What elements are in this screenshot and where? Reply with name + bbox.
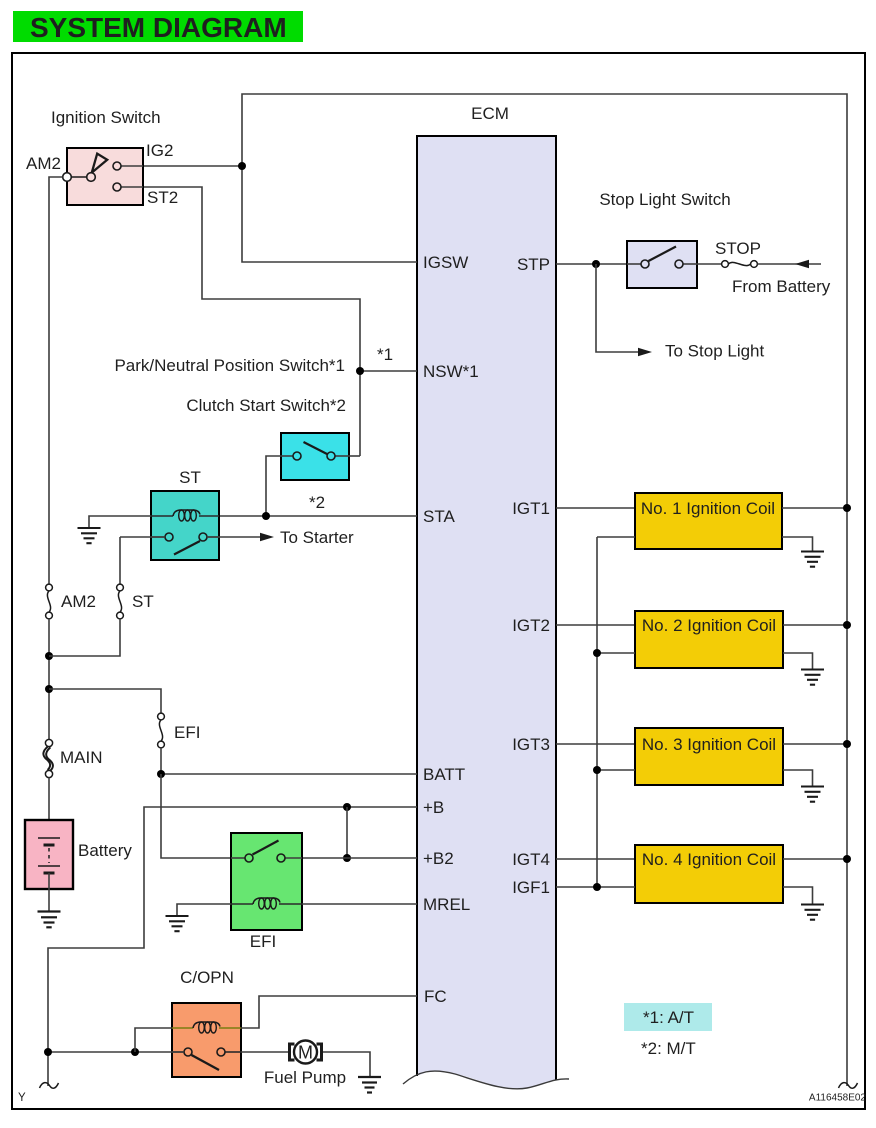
svg-text:C/OPN: C/OPN: [180, 968, 234, 987]
ground coil 3: [801, 787, 824, 802]
wire IGT2 from ECM to coil 2: [556, 624, 635, 626]
clutch start switch SW2 box: [281, 433, 349, 480]
wire clutch switch right to NSW vertical: [349, 455, 360, 457]
wire coil 3 feed to right rail: [783, 743, 847, 745]
wire NSW junction to NSW*1 pin: [360, 370, 417, 372]
wire IGT4 from ECM to coil 4: [556, 858, 635, 860]
node fuel rail left junction: [44, 1048, 52, 1056]
svg-text:*1: A/T: *1: A/T: [643, 1008, 694, 1027]
wire EFI fuse branch: [49, 689, 161, 713]
fuse EFI: [158, 713, 165, 748]
fuse MAIN (fusible link): [43, 739, 53, 777]
svg-text:Fuel Pump: Fuel Pump: [264, 1068, 346, 1087]
svg-text:+B: +B: [423, 798, 444, 817]
svg-text:Y: Y: [18, 1092, 26, 1104]
wire ST fuse branch from ST relay contact: [119, 537, 121, 584]
svg-text:Battery: Battery: [78, 841, 132, 860]
wire IGF1 from ECM to coil 4: [556, 886, 635, 888]
svg-text:EFI: EFI: [174, 723, 200, 742]
wire coil 3 to ground: [783, 770, 813, 787]
title SYSTEM DIAGRAM: [13, 11, 303, 43]
wire break tilde bottom-right rail: [839, 1083, 858, 1089]
wire AM2 fuse to junctions: [48, 619, 50, 739]
svg-text:IGT2: IGT2: [512, 616, 550, 635]
wire battery to ground: [48, 873, 50, 911]
relay ST box: [151, 491, 219, 560]
wire From Battery with left arrow: [757, 260, 821, 268]
svg-text:IGT1: IGT1: [512, 499, 550, 518]
svg-text:To Starter: To Starter: [280, 528, 354, 547]
node BATT junction: [157, 770, 165, 778]
svg-text:No. 4 Ignition Coil: No. 4 Ignition Coil: [642, 850, 776, 869]
wire coil feed up into C/OPN: [135, 1028, 172, 1052]
wire ST relay coil to ground: [89, 516, 151, 528]
svg-text:IGT3: IGT3: [512, 735, 550, 754]
note highlight *1: A/T: [624, 1003, 712, 1031]
ignition coil 2 box: [635, 611, 783, 668]
svg-text:*2: M/T: *2: M/T: [641, 1039, 696, 1058]
node EFI branch junction: [45, 685, 53, 693]
svg-text:Park/Neutral Position Switch*1: Park/Neutral Position Switch*1: [114, 356, 345, 375]
wire EFI relay coil to ground: [177, 904, 231, 916]
motor fuel pump M1: [290, 1041, 322, 1064]
wire coil 2 to IGF rail: [597, 652, 635, 654]
wire EFI fuse to BATT junction: [160, 748, 162, 774]
svg-text:NSW*1: NSW*1: [423, 362, 479, 381]
svg-text:MAIN: MAIN: [60, 748, 103, 767]
wire IG2 to junction: [121, 165, 242, 167]
wire coil 2 feed to right rail: [783, 624, 847, 626]
wire coil 2 to ground: [783, 653, 813, 670]
wire IGF rail vertical: [596, 537, 598, 887]
ignition coil 3 box: [635, 728, 783, 785]
ground below battery: [38, 912, 61, 928]
svg-text:SYSTEM DIAGRAM: SYSTEM DIAGRAM: [30, 12, 287, 43]
battery BT1: [25, 820, 73, 889]
svg-text:To Stop Light: To Stop Light: [665, 342, 765, 361]
ground coil 4: [801, 905, 824, 920]
wire MAIN fuse to battery: [48, 778, 50, 838]
wire +B from ECM to bottom-left rail: [48, 807, 417, 1086]
wire coil 4 feed to right rail: [783, 858, 847, 860]
node IG2 junction: [238, 162, 246, 170]
svg-text:Clutch Start Switch*2: Clutch Start Switch*2: [186, 396, 346, 415]
node coil feed junction: [131, 1048, 139, 1056]
fuse AM2: [46, 584, 53, 619]
wire fuel pump to ground: [323, 1052, 370, 1076]
wire break tilde bottom-left: [40, 1083, 59, 1089]
fuse STOP: [697, 261, 757, 268]
svg-text:ST: ST: [179, 468, 201, 487]
wire coil 3 to IGF rail: [597, 769, 635, 771]
wire To Starter with arrow: [207, 533, 274, 541]
svg-text:ECM: ECM: [471, 104, 509, 123]
node coil 2 IGF junction: [593, 649, 601, 657]
wire clutch switch left down to STA junction: [266, 456, 281, 516]
svg-text:*1: *1: [377, 345, 393, 364]
node coil 3 IGF junction: [593, 766, 601, 774]
wire AM2 rail (left): [49, 177, 63, 584]
wire STA from ST relay coil to ECM: [219, 515, 417, 517]
svg-text:Stop Light Switch: Stop Light Switch: [599, 190, 730, 209]
switch stop light box: [627, 241, 697, 288]
node +B2 junction: [343, 854, 351, 862]
wire +B2 from EFI relay to ECM: [285, 857, 417, 859]
wire MREL from EFI relay coil to ECM: [302, 903, 417, 905]
node coil 2 rail junction: [843, 621, 851, 629]
wire junction to IGSW pin: [242, 166, 417, 262]
svg-text:BATT: BATT: [423, 765, 465, 784]
svg-text:From Battery: From Battery: [732, 277, 831, 296]
svg-text:FC: FC: [424, 987, 447, 1006]
node STP junction: [592, 260, 600, 268]
wire fuel pump rail: [48, 1051, 184, 1053]
wire IGT3 from ECM to coil 3: [556, 743, 635, 745]
svg-text:IGSW: IGSW: [423, 253, 468, 272]
node STA junction: [262, 512, 270, 520]
wire to stop light branch with arrow: [596, 264, 652, 356]
relay C/OPN box: [172, 1003, 241, 1077]
svg-text:Ignition Switch: Ignition Switch: [51, 108, 161, 127]
svg-text:No. 2 Ignition Coil: No. 2 Ignition Coil: [642, 616, 776, 635]
svg-text:ST: ST: [132, 592, 154, 611]
svg-text:STP: STP: [517, 255, 550, 274]
wire BATT junction down to EFI relay contact: [161, 774, 245, 858]
ECM U1 box with torn-paper wavy bottom: [403, 136, 569, 1089]
svg-text:AM2: AM2: [61, 592, 96, 611]
node +B junction: [343, 803, 351, 811]
wire STP from ECM to stop light switch: [556, 263, 641, 265]
svg-text:ST2: ST2: [147, 188, 178, 207]
svg-text:IGT4: IGT4: [512, 850, 550, 869]
fuse ST: [117, 584, 124, 619]
svg-text:+B2: +B2: [423, 849, 454, 868]
wire +B to +B2 link: [346, 807, 348, 858]
wire coil 4 to ground: [783, 887, 813, 905]
wire coil 1 to ground: [782, 537, 813, 552]
svg-text:MREL: MREL: [423, 895, 470, 914]
wire top loop from IG2 junction to right rail: [242, 94, 847, 1086]
svg-text:No. 1 Ignition Coil: No. 1 Ignition Coil: [641, 499, 775, 518]
svg-text:IG2: IG2: [146, 141, 173, 160]
wire ST relay left contact down to ST fuse: [120, 536, 165, 538]
node AM2/ST junction: [45, 652, 53, 660]
wire FC from C/OPN coil to ECM: [241, 996, 417, 1028]
ground coil 1: [801, 552, 824, 567]
svg-text:EFI: EFI: [250, 932, 276, 951]
node NSW junction: [356, 367, 364, 375]
wire IGT1 from ECM to coil 1: [556, 507, 635, 509]
wire C/OPN to fuel pump: [241, 1051, 288, 1053]
node coil 4 IGF junction: [593, 883, 601, 891]
svg-text:A116458E02: A116458E02: [809, 1093, 867, 1104]
ignition switch SW1 box: [63, 148, 143, 205]
wire coil 1 to IGF rail: [597, 536, 635, 538]
svg-text:No. 3 Ignition Coil: No. 3 Ignition Coil: [642, 735, 776, 754]
relay EFI box: [231, 833, 302, 930]
svg-text:STOP: STOP: [715, 239, 761, 258]
svg-text:*2: *2: [309, 493, 325, 512]
svg-text:STA: STA: [423, 507, 455, 526]
wire ST2 to NSW/clutch vertical: [121, 187, 360, 456]
ground ST relay: [78, 528, 101, 543]
svg-text:IGF1: IGF1: [512, 878, 550, 897]
ignition coil 4 box: [635, 845, 783, 903]
ground coil 2: [801, 670, 824, 685]
ground EFI relay: [166, 916, 189, 931]
wire coil 1 feed to right rail: [782, 507, 847, 509]
wire ST fuse to AM2 rail: [49, 619, 120, 656]
svg-text:M: M: [298, 1043, 313, 1063]
ignition coil 1 box: [635, 493, 782, 549]
svg-text:AM2: AM2: [26, 154, 61, 173]
node coil 4 rail junction: [843, 855, 851, 863]
ground fuel pump: [358, 1077, 381, 1093]
wire BATT to ECM: [161, 773, 417, 775]
node coil 1 rail junction: [843, 504, 851, 512]
node coil 3 rail junction: [843, 740, 851, 748]
